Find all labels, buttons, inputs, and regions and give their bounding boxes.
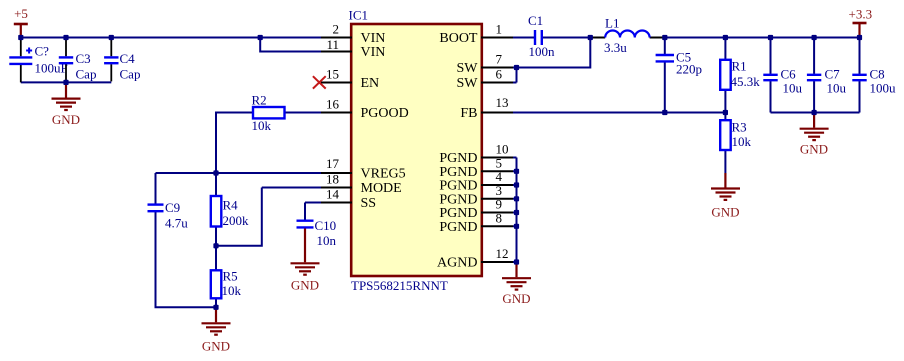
svg-text:C10: C10 <box>315 218 337 233</box>
pin 16 stub <box>321 112 352 114</box>
svg-text:BOOT: BOOT <box>439 31 478 46</box>
ground under AGND pin 12 <box>502 262 531 306</box>
wire: R4 top lead <box>215 173 217 196</box>
svg-text:C1: C1 <box>528 13 543 28</box>
svg-text:16: 16 <box>326 97 340 112</box>
svg-text:11: 11 <box>326 37 339 52</box>
wire: C5 top lead <box>664 38 666 55</box>
svg-text:GND: GND <box>291 277 319 292</box>
pin 14 stub <box>321 202 352 204</box>
node PGND pin8 <box>514 224 519 229</box>
node PGND pin5 <box>514 169 519 174</box>
svg-text:+5: +5 <box>14 6 28 21</box>
resistor R1 <box>720 60 731 90</box>
pin 15 stub <box>321 82 352 84</box>
svg-text:10u: 10u <box>783 80 803 95</box>
pin 9 stub <box>481 212 513 214</box>
resistor R3 <box>720 120 731 150</box>
node C8 top / +3.3 <box>857 35 862 40</box>
svg-text:GND: GND <box>800 141 828 156</box>
capacitor C6 <box>763 75 777 80</box>
wire: C6 leads <box>770 38 772 113</box>
svg-text:R4: R4 <box>223 198 239 213</box>
wire: R2 left down to VREG5 line <box>216 113 253 174</box>
svg-text:100n: 100n <box>529 44 556 59</box>
svg-text:PGND: PGND <box>439 206 477 221</box>
wire: R1 top lead <box>724 38 726 60</box>
svg-text:SS: SS <box>361 196 377 211</box>
inductor L1 <box>605 31 649 38</box>
svg-text:PGND: PGND <box>439 179 477 194</box>
svg-text:10k: 10k <box>732 134 752 149</box>
svg-text:1: 1 <box>496 21 503 36</box>
node R1 top <box>723 35 728 40</box>
svg-text:4.7u: 4.7u <box>165 216 188 231</box>
svg-text:R3: R3 <box>732 119 747 134</box>
svg-text:C6: C6 <box>781 67 797 82</box>
svg-text:PGOOD: PGOOD <box>361 106 409 121</box>
ground under R3 <box>711 173 740 219</box>
wire: L1 left pin <box>590 37 605 39</box>
ground under C7 <box>800 113 829 157</box>
capacitor C3 <box>59 39 73 82</box>
node C1/SW/L1 <box>588 35 593 40</box>
svg-text:VIN: VIN <box>361 45 386 60</box>
svg-text:17: 17 <box>326 156 340 171</box>
svg-text:13: 13 <box>496 95 509 110</box>
svg-text:SW: SW <box>457 76 479 91</box>
svg-text:10k: 10k <box>222 283 242 298</box>
svg-text:6: 6 <box>496 67 503 82</box>
svg-text:Cap: Cap <box>76 67 97 82</box>
svg-text:AGND: AGND <box>437 256 477 271</box>
node +5/C? <box>18 35 23 40</box>
wire: FB line <box>513 112 725 114</box>
node C7 bottom / GND <box>812 110 817 115</box>
node C5 bottom / FB <box>662 110 667 115</box>
svg-text:4: 4 <box>496 169 503 184</box>
pin 10 stub <box>481 157 513 159</box>
svg-text:TPS568215RNNT: TPS568215RNNT <box>351 278 448 293</box>
svg-text:GND: GND <box>502 291 530 306</box>
svg-text:L1: L1 <box>605 15 619 30</box>
wire: SS down to C10 <box>304 203 306 221</box>
wire: ground rail under C6-C8 <box>771 112 860 114</box>
svg-text:45.3k: 45.3k <box>731 74 761 89</box>
svg-text:10u: 10u <box>827 80 847 95</box>
svg-text:220p: 220p <box>676 61 702 76</box>
pin 2 stub <box>321 37 352 39</box>
node SW pins <box>514 65 519 70</box>
svg-text:C?: C? <box>35 43 50 58</box>
no-ERC marker X on EN pin <box>313 76 326 88</box>
pin 17 stub <box>321 172 352 174</box>
svg-text:SW: SW <box>457 61 479 76</box>
node R4/R5/MODE <box>213 243 218 248</box>
svg-text:GND: GND <box>711 204 739 219</box>
IC U1 body <box>351 24 482 276</box>
wire: rail C5 to +3.3 <box>665 37 860 39</box>
svg-text:7: 7 <box>496 51 503 66</box>
capacitor C10 <box>297 221 314 228</box>
svg-text:2: 2 <box>333 21 340 36</box>
node PGND pin3 <box>514 196 519 201</box>
svg-text:100u: 100u <box>870 80 897 95</box>
node C7 top <box>812 35 817 40</box>
pin 5 stub <box>481 170 513 172</box>
capacitor C8 <box>852 75 866 80</box>
resistor R5 <box>211 270 222 298</box>
svg-text:9: 9 <box>496 197 503 212</box>
capacitor C7 <box>807 75 821 80</box>
power +5 <box>14 6 28 38</box>
node R5 bottom/C9/GND <box>213 305 218 310</box>
capacitor C? (polarized 100uF) <box>9 39 32 83</box>
pin 7 stub <box>481 67 513 69</box>
power +3.3 <box>849 7 873 38</box>
node PGND pin9 <box>514 210 519 215</box>
pin 13 stub <box>481 112 513 114</box>
wire: R3 bottom lead to GND <box>724 150 726 173</box>
wire: +5 rail top-left <box>21 37 321 39</box>
ground under C3 <box>52 82 81 127</box>
node C5 top <box>662 35 667 40</box>
pin 6 stub <box>481 82 513 84</box>
svg-text:10: 10 <box>496 142 509 157</box>
svg-text:C7: C7 <box>825 67 841 82</box>
svg-text:15: 15 <box>326 67 339 82</box>
node C3 bottom/GND <box>63 80 68 85</box>
wire: C1 to SW-rail junction <box>542 37 591 39</box>
svg-text:GND: GND <box>52 112 80 127</box>
capacitor C5 <box>656 55 674 61</box>
svg-text:3.3u: 3.3u <box>604 40 627 55</box>
svg-text:PGND: PGND <box>439 151 477 166</box>
svg-text:R5: R5 <box>223 268 238 283</box>
node C3 top <box>63 35 68 40</box>
ground under C10 <box>291 229 320 293</box>
wire: bottom rail under C?,C3,C4 <box>21 81 112 83</box>
svg-text:+3.3: +3.3 <box>849 7 873 22</box>
svg-text:14: 14 <box>326 187 340 202</box>
wire: MODE line <box>262 187 321 189</box>
svg-text:12: 12 <box>496 246 509 261</box>
node PGND pin4 <box>514 182 519 187</box>
capacitor C1 <box>535 30 542 45</box>
svg-text:200k: 200k <box>223 213 250 228</box>
wire: C7 leads <box>813 38 815 113</box>
svg-text:FB: FB <box>460 106 477 121</box>
svg-text:MODE: MODE <box>361 181 402 196</box>
resistor R2 <box>253 107 285 118</box>
svg-text:IC1: IC1 <box>349 7 369 22</box>
pin 12 stub <box>481 261 513 263</box>
svg-text:PGND: PGND <box>439 220 477 235</box>
svg-text:R1: R1 <box>732 58 747 73</box>
svg-text:Cap: Cap <box>120 67 141 82</box>
node VREG5/R2/R4 <box>213 170 218 175</box>
svg-text:8: 8 <box>496 211 503 226</box>
wire: C8 leads <box>859 38 861 113</box>
wire: SW pins line to riser <box>513 38 590 68</box>
wire: C9 bottom to R5 bottom junction <box>156 212 217 307</box>
ground under R5 <box>202 307 231 353</box>
wire: C9 top lead from VREG5 line <box>155 173 157 204</box>
wire: MODE drop to R4/R5 junction <box>216 188 262 246</box>
svg-text:C8: C8 <box>870 67 885 82</box>
wire: PGND stub links <box>513 158 517 263</box>
node C6 top <box>768 35 773 40</box>
wire: R1 bottom lead <box>724 90 726 112</box>
pin 3 stub <box>481 198 513 200</box>
svg-text:18: 18 <box>326 172 339 187</box>
pin 8 stub <box>481 225 513 227</box>
node R1/R3/FB <box>723 110 728 115</box>
wire: R4 bottom to R5 top <box>215 227 217 270</box>
wire: PGND bus <box>516 158 518 263</box>
wire: drop to VIN pin 11 <box>260 38 321 52</box>
wire: SW pin6 link <box>513 68 517 83</box>
wire: R2 right to PGOOD <box>285 112 322 114</box>
pin 18 stub <box>321 187 352 189</box>
svg-text:VREG5: VREG5 <box>361 167 406 182</box>
svg-text:C4: C4 <box>120 51 136 66</box>
svg-text:EN: EN <box>361 76 380 91</box>
wire: R3 top lead <box>724 113 726 120</box>
capacitor C4 <box>104 39 118 82</box>
wire: SS line <box>305 202 321 204</box>
svg-text:C9: C9 <box>165 200 180 215</box>
wire: BOOT to C1 <box>513 37 534 39</box>
node C4 top <box>109 35 114 40</box>
svg-text:10n: 10n <box>317 233 337 248</box>
pin 1 stub <box>481 37 513 39</box>
node pin11 drop <box>258 35 263 40</box>
wire: C5 bottom lead <box>664 62 666 112</box>
svg-text:VIN: VIN <box>361 31 386 46</box>
pin 11 stub <box>321 51 352 53</box>
node AGND pin12 <box>514 259 519 264</box>
resistor R4 <box>211 196 222 227</box>
pin 4 stub <box>481 184 513 186</box>
wire: R5 bottom to GND junction <box>215 299 217 308</box>
svg-text:GND: GND <box>202 339 230 354</box>
wire: L1 right pin <box>650 37 665 39</box>
svg-text:C3: C3 <box>76 51 91 66</box>
wire: VREG5 line <box>156 172 322 174</box>
capacitor C9 <box>148 205 164 212</box>
svg-text:R2: R2 <box>252 93 267 108</box>
svg-text:10k: 10k <box>252 118 272 133</box>
